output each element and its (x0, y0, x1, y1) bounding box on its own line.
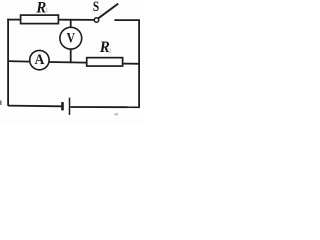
wire middle horizontal left (to ammeter) (8, 60, 30, 63)
wire R1 to switch (59, 19, 94, 21)
wire battery to bottom-right corner (70, 106, 140, 108)
wire bottom-left segment (to battery) (8, 105, 61, 108)
voltmeter V circle (60, 27, 82, 49)
scan smudge bottom-right (115, 113, 118, 115)
svg-text:A: A (35, 52, 46, 69)
resistor R2 (87, 58, 123, 66)
wire left vertical (7, 19, 9, 106)
svg-text:1: 1 (45, 7, 48, 14)
switch S pivot circle (94, 18, 98, 22)
battery negative plate (short thick) (61, 102, 64, 110)
resistor R1 (21, 15, 59, 24)
ammeter A circle (30, 50, 49, 69)
battery positive plate (long thin) (69, 98, 71, 115)
svg-text:2: 2 (108, 47, 111, 54)
svg-text:S: S (93, 0, 99, 14)
wire switch to top-right corner (114, 19, 139, 21)
scan smudge bottom-left edge (0, 101, 2, 106)
wire voltmeter upper lead (70, 20, 72, 28)
wire right vertical (138, 20, 140, 108)
wire ammeter to voltmeter junction (49, 61, 86, 64)
wire R2 to right vertical (124, 63, 140, 65)
wire top-left segment (7, 19, 20, 21)
switch S blade (98, 4, 118, 19)
svg-text:V: V (67, 29, 76, 46)
wire voltmeter lower lead (70, 49, 72, 63)
